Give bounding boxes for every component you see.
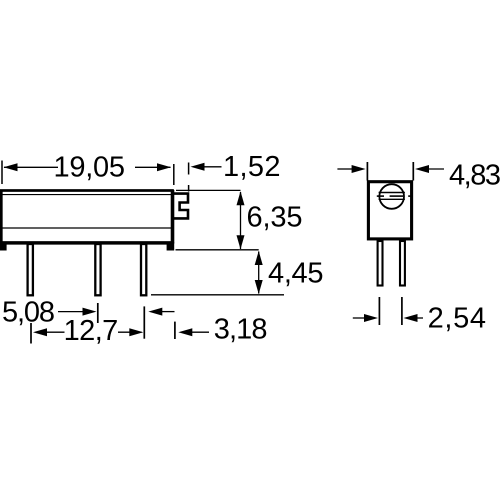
svg-text:1,52: 1,52 [223, 151, 281, 183]
svg-text:12,7: 12,7 [64, 315, 119, 347]
svg-text:6,35: 6,35 [247, 202, 303, 234]
svg-text:3,18: 3,18 [214, 314, 268, 346]
svg-text:5,08: 5,08 [2, 297, 55, 329]
svg-text:2,54: 2,54 [428, 303, 486, 335]
svg-text:4,83: 4,83 [449, 159, 500, 191]
svg-text:19,05: 19,05 [54, 152, 126, 184]
svg-text:4,45: 4,45 [268, 258, 324, 290]
